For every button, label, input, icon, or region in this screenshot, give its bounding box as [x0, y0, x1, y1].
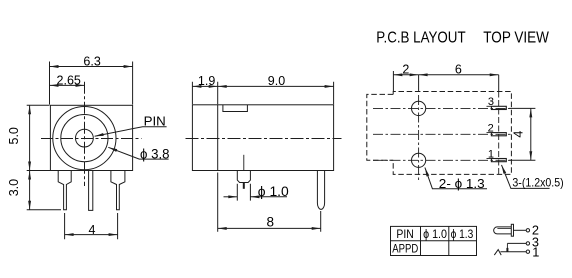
- dimension 4 (front) extension lines: [65, 213, 118, 239]
- hole column center line: [418, 75, 420, 92]
- internal vertical edge: [217, 105, 219, 171]
- right leg (lug + pin): [111, 171, 125, 210]
- dimension 1.9 line: [192, 85, 217, 87]
- svg-text:2: 2: [402, 63, 409, 77]
- pin 2 lead: [514, 229, 527, 231]
- svg-text:4: 4: [512, 131, 526, 138]
- dim 1.9 / 9.0 extension lines: [192, 82, 333, 105]
- dimension 2 line (pcb): [393, 74, 418, 76]
- svg-text:2.65: 2.65: [57, 74, 81, 88]
- svg-text:3-(1.2x0.5): 3-(1.2x0.5): [512, 175, 563, 189]
- pad column center line: [498, 75, 500, 92]
- svg-text:ϕ 1.0: ϕ 1.0: [423, 227, 447, 241]
- dimension 4 (front) line: [65, 234, 118, 236]
- svg-text:4: 4: [89, 223, 96, 237]
- pad 2: [487, 132, 492, 134]
- svg-text:6: 6: [455, 63, 462, 77]
- svg-text:8: 8: [267, 214, 275, 229]
- svg-text:3.0: 3.0: [7, 179, 21, 196]
- svg-text:2: 2: [488, 123, 494, 135]
- inner barrel circle (phi 3.8): [61, 115, 108, 162]
- dimension 5.0 line: [29, 105, 31, 170]
- label 2-phi1.3 leader: [425, 168, 487, 189]
- side view center line: [186, 138, 342, 140]
- left leg (lug + pin): [58, 171, 71, 210]
- svg-text:1: 1: [532, 244, 539, 259]
- top notch: [223, 105, 248, 112]
- svg-text:ϕ 3.8: ϕ 3.8: [140, 146, 170, 162]
- row 3 center line: [373, 107, 512, 109]
- phi3.8 leader: [108, 147, 168, 159]
- PIN leader: [95, 127, 167, 137]
- dimension 6 line (pcb): [419, 74, 499, 76]
- lug center pin stub: [243, 155, 245, 171]
- pin 2 terminal: [526, 229, 529, 232]
- center terminal pin (side): [317, 171, 324, 210]
- svg-text:APPD: APPD: [392, 242, 418, 256]
- plug symbol (pin 2 barrel): [494, 227, 512, 234]
- pcb front flange outline (dashed): [367, 94, 393, 160]
- svg-text:PIN: PIN: [396, 227, 413, 241]
- mounting hole bottom (phi 1.3): [412, 153, 426, 167]
- row 1 center line: [373, 159, 512, 161]
- svg-text:PIN: PIN: [144, 114, 166, 129]
- dimension 3.0 line: [29, 171, 31, 210]
- label 3-(1.2x0.5) leader: [502, 165, 550, 189]
- dim 2 / 6 extension line: [392, 71, 394, 91]
- pad 3: [487, 105, 492, 107]
- outer barrel circle: [53, 107, 116, 170]
- svg-text:ϕ 1.3: ϕ 1.3: [451, 227, 474, 241]
- svg-text:TOP VIEW: TOP VIEW: [483, 29, 549, 46]
- dimension 4 (pcb) line: [530, 108, 532, 160]
- dimension 6.3 extension lines: [50, 62, 133, 105]
- svg-text:3: 3: [488, 96, 494, 108]
- vertical center line: [84, 82, 86, 186]
- pin 1 spring contact: [494, 250, 526, 256]
- mounting hole top (phi 1.3): [412, 101, 426, 115]
- jack body (side view): [192, 105, 333, 171]
- middle leg: [89, 171, 93, 211]
- svg-text:2- ϕ 1.3: 2- ϕ 1.3: [439, 177, 485, 191]
- plug flange bar: [511, 224, 513, 236]
- dimension 5.0 / 3.0 extension lines: [27, 105, 61, 210]
- pin 3 lead: [507, 242, 526, 244]
- dimension 6.3 line: [50, 66, 133, 68]
- jack body (front view): [50, 105, 132, 170]
- pad 1: [487, 158, 492, 160]
- svg-text:9.0: 9.0: [268, 74, 285, 88]
- horizontal center line: [41, 138, 142, 140]
- svg-text:6.3: 6.3: [83, 54, 100, 68]
- svg-text:P.C.B LAYOUT: P.C.B LAYOUT: [376, 29, 466, 46]
- dim 4 (pcb) extension lines: [509, 108, 535, 160]
- svg-text:ϕ 1.0: ϕ 1.0: [258, 184, 289, 199]
- dimension 2.65 line: [50, 84, 85, 86]
- svg-text:1: 1: [488, 149, 494, 161]
- center pin hole: [76, 129, 94, 147]
- pin table frame: [391, 226, 477, 255]
- row 2 center line: [373, 133, 512, 135]
- svg-text:5.0: 5.0: [7, 127, 21, 144]
- dim phi1.0 arrows: [224, 196, 238, 198]
- svg-text:1.9: 1.9: [198, 74, 215, 88]
- pcb body outline (dashed): [393, 92, 511, 175]
- dim phi1.0 extension lines: [237, 184, 250, 201]
- pin 1 terminal: [526, 250, 529, 253]
- pin 3 terminal: [526, 242, 529, 245]
- switch drop wire: [506, 243, 508, 248]
- dimension 8 extension lines: [218, 173, 321, 232]
- dimension 9.0 line: [218, 85, 334, 87]
- side lug: [237, 171, 250, 183]
- dimension 8 line: [218, 227, 321, 229]
